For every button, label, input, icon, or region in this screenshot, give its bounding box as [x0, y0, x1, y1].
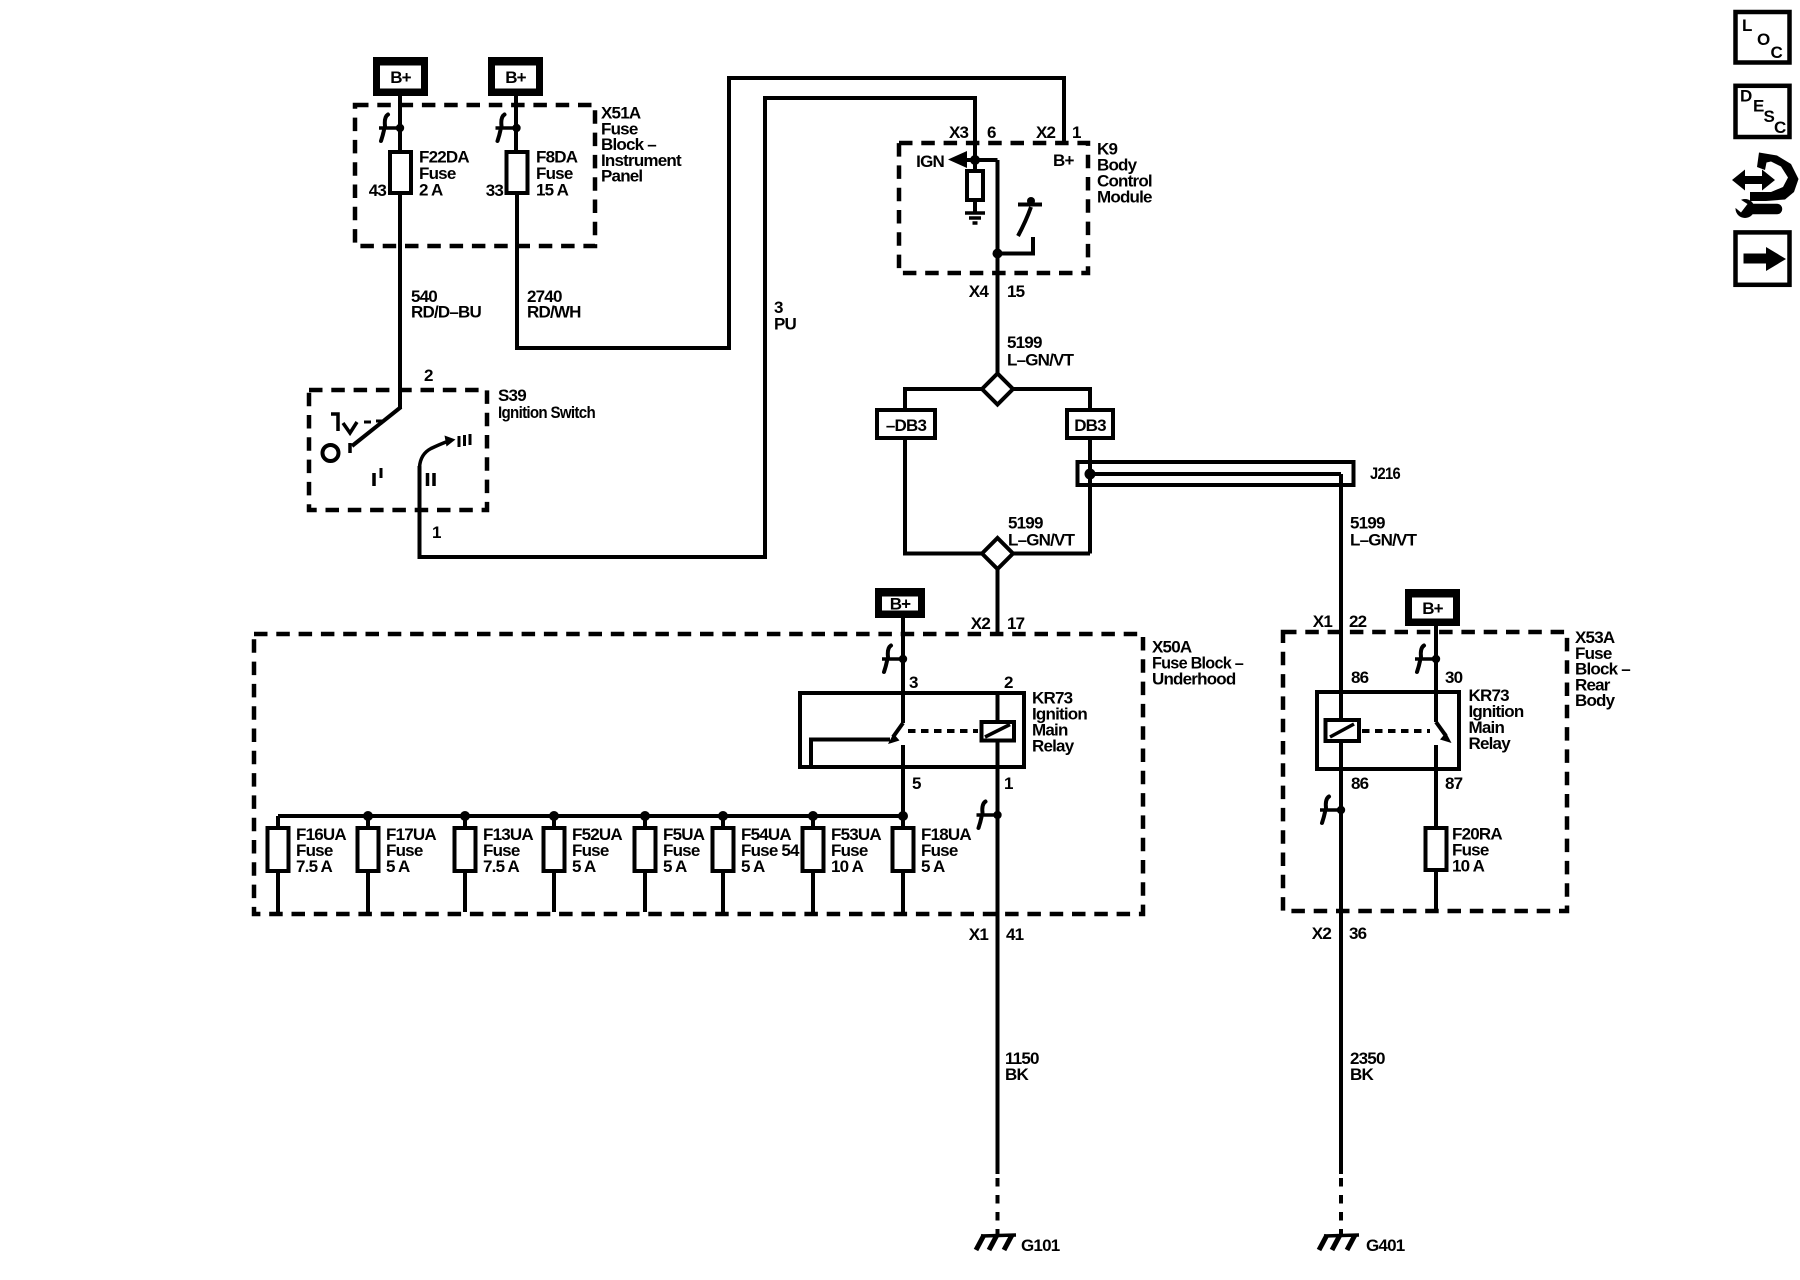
S39 moving contact II-III with arrowhead: [420, 436, 456, 468]
S39 pivot circle: [323, 445, 339, 461]
label 2350 BK: [1350, 1049, 1385, 1084]
label 5199 L-GN/VT (left branch): [1008, 514, 1076, 550]
label F53UA Fuse 10 A: [831, 825, 881, 876]
svg-text:PU: PU: [774, 315, 797, 334]
svg-text:33: 33: [486, 181, 504, 200]
label F20RA Fuse 10 A: [1452, 825, 1502, 876]
label 3 PU: [774, 298, 797, 334]
svg-text:15 A: 15 A: [536, 181, 569, 200]
svg-text:5 A: 5 A: [663, 857, 687, 876]
svg-text:L: L: [1742, 16, 1752, 35]
wire relay pin 5 to fuse bus: [901, 767, 905, 818]
fuse F13UA: [455, 816, 476, 912]
wire 3 PU (S39 pin1 to K9 X3-6): [420, 98, 976, 557]
fuse F8DA: [507, 152, 528, 193]
svg-text:BK: BK: [1350, 1065, 1374, 1084]
wire splice to DB3: [1013, 389, 1090, 410]
svg-text:Underhood: Underhood: [1152, 670, 1236, 689]
wire -DB3 to lower splice: [905, 438, 982, 554]
svg-text:X4: X4: [969, 282, 990, 301]
wire splice to -DB3: [905, 389, 982, 410]
label F5UA Fuse 5 A: [663, 825, 705, 876]
svg-text:IGN: IGN: [916, 152, 944, 171]
junction dot at X4 branch: [993, 249, 1003, 259]
svg-text:2: 2: [1004, 673, 1013, 692]
svg-text:G101: G101: [1021, 1236, 1060, 1255]
svg-text:B+: B+: [1053, 151, 1074, 170]
splice diamond (upper): [982, 374, 1013, 405]
svg-text:L–GN/VT: L–GN/VT: [1007, 350, 1075, 369]
svg-text:5: 5: [912, 774, 921, 793]
ground symbol in K9: [965, 213, 985, 223]
junction dot on fuse bus at F53UA: [808, 811, 818, 821]
wire B+ to fuse F22DA: [398, 96, 402, 152]
ignition switch S39 dashed box: [309, 390, 487, 510]
icon next-page button: [1736, 232, 1790, 284]
junction dot at X3-6: [970, 155, 980, 165]
fuse bus wire: [278, 814, 903, 818]
svg-text:41: 41: [1006, 925, 1024, 944]
svg-text:J216: J216: [1370, 464, 1400, 483]
wire inside J216: [1090, 472, 1341, 476]
KR73 output stub (pin87): [1434, 745, 1438, 769]
svg-text:43: 43: [369, 181, 387, 200]
KR73 switch feed stub (pin30): [1434, 692, 1438, 722]
label X53A Fuse Block - Rear Body: [1575, 628, 1630, 710]
svg-text:BK: BK: [1005, 1065, 1029, 1084]
wire DB3 down through J216: [1088, 438, 1092, 554]
wire X1-22 into X53A to relay pin 86: [1339, 632, 1343, 692]
label F54UA Fuse 54 5 A: [741, 825, 800, 876]
label F8DA Fuse 15 A: [536, 148, 578, 200]
svg-text:S: S: [1764, 107, 1775, 126]
fuse block X53A dashed box: [1283, 632, 1567, 911]
svg-text:B+: B+: [505, 68, 526, 87]
wire F20RA to X53A edge: [1434, 870, 1438, 911]
svg-text:17: 17: [1007, 614, 1025, 633]
KR73 coil (X53A, on pin86 line): [1326, 692, 1360, 769]
wire 1150 BK: [996, 914, 1000, 1174]
K9 internal switch lever: [1018, 207, 1031, 236]
svg-text:1: 1: [1004, 774, 1013, 793]
fuse F18UA: [893, 816, 914, 912]
svg-text:Module: Module: [1097, 188, 1152, 207]
svg-text:B+: B+: [890, 595, 911, 614]
BCM K9 dashed box: [899, 143, 1088, 273]
fuse block X50A dashed box: [254, 634, 1143, 914]
svg-text:Relay: Relay: [1469, 734, 1512, 753]
svg-text:10 A: 10 A: [831, 857, 864, 876]
svg-text:X1: X1: [1313, 612, 1333, 631]
junction dot fuse bus / relay pin 5: [898, 811, 908, 821]
power feed B+ (to F8DA): [488, 57, 543, 96]
svg-text:1: 1: [432, 523, 441, 542]
S39 position label II: [428, 473, 435, 486]
KR73 fixed contact L-wire: [811, 740, 890, 767]
svg-text:2: 2: [424, 366, 433, 385]
connector symbol on pin 1 wire: [977, 802, 1002, 829]
svg-text:O: O: [1757, 30, 1770, 49]
S39 position label I: [374, 468, 381, 486]
svg-text:30: 30: [1445, 668, 1463, 687]
wire B+ into X53A to relay pin 30: [1434, 626, 1438, 692]
label F18UA Fuse 5 A: [921, 825, 971, 876]
svg-text:Body: Body: [1575, 691, 1616, 710]
relay KR73 box (X53A): [1317, 692, 1459, 769]
svg-text:C: C: [1771, 43, 1783, 62]
junction dot on fuse bus at F52UA: [549, 811, 559, 821]
svg-text:87: 87: [1445, 774, 1463, 793]
icon LOC button: [1736, 12, 1790, 63]
fuse F17UA: [358, 816, 379, 912]
svg-text:X2: X2: [1036, 123, 1056, 142]
wire relay pin 87 to fuse F20RA: [1434, 769, 1438, 828]
svg-text:Relay: Relay: [1032, 737, 1075, 756]
wire IGN to X4 branch: [965, 158, 998, 162]
svg-text:RD/D–BU: RD/D–BU: [411, 303, 481, 322]
label F16UA Fuse 7.5 A: [296, 825, 346, 876]
svg-text:X2: X2: [971, 614, 991, 633]
connector symbol below X53A B+: [1415, 646, 1440, 673]
label 1150 BK: [1005, 1049, 1039, 1084]
label F17UA Fuse 5 A: [386, 825, 436, 876]
label 5199 L-GN/VT (right branch): [1350, 514, 1418, 550]
resistor in K9 (pull-up): [967, 160, 983, 213]
wire K9 X4-15 output: [996, 160, 1000, 374]
IGN arrow: [948, 151, 967, 168]
S39 lever from pin 2: [350, 407, 401, 453]
KR73 switch feed stub (pin3): [901, 693, 905, 723]
fuse F5UA: [635, 816, 656, 912]
connector symbol below X50A B+: [882, 646, 907, 673]
wire J216 to X53A X1-22: [1339, 474, 1343, 632]
svg-text:X2: X2: [1312, 924, 1332, 943]
wire to lower splice (right): [1013, 552, 1090, 556]
svg-text:RD/WH: RD/WH: [527, 303, 581, 322]
fuse F52UA: [544, 816, 565, 912]
node DB3: [1067, 410, 1113, 438]
svg-text:7.5 A: 7.5 A: [296, 857, 333, 876]
node -DB3: [877, 410, 935, 438]
label F22DA Fuse 2 A: [419, 148, 469, 200]
svg-text:E: E: [1753, 97, 1764, 116]
svg-text:86: 86: [1351, 774, 1369, 793]
svg-text:L–GN/VT: L–GN/VT: [1350, 531, 1418, 550]
svg-text:X1: X1: [969, 925, 989, 944]
wire relay pin 1 to X1-41: [996, 767, 1000, 914]
KR73 output stub (pin5): [901, 745, 905, 767]
svg-text:DB3: DB3: [1074, 416, 1106, 435]
label X51A Fuse Block - Instrument Panel: [601, 104, 682, 186]
label X50A Fuse Block - Underhood: [1152, 638, 1243, 689]
icon DESC button: [1736, 86, 1790, 137]
wire B+ to fuse F8DA: [514, 96, 518, 152]
K9 internal switch contact bar: [1018, 197, 1042, 205]
wire 540 RD/D-BU: [398, 193, 402, 409]
KR73 coil actuation dashed link (X53A): [1362, 729, 1430, 733]
power feed B+ (X50A): [875, 588, 925, 618]
junction dot in J216: [1085, 469, 1096, 480]
svg-text:–DB3: –DB3: [886, 416, 927, 435]
svg-text:2 A: 2 A: [419, 181, 443, 200]
wire lower splice to X50A X2-17: [996, 569, 1000, 634]
S39 position marks (OFF/ACC): [331, 414, 382, 433]
svg-text:5199: 5199: [1007, 333, 1042, 352]
svg-text:36: 36: [1349, 924, 1367, 943]
svg-text:86: 86: [1351, 668, 1369, 687]
ground G401: [1319, 1235, 1359, 1250]
KR73 coil actuation dashed link: [908, 729, 978, 733]
junction dot on fuse bus at F13UA: [460, 811, 470, 821]
S39 position label III: [459, 434, 470, 447]
label S39 Ignition Switch: [498, 386, 595, 422]
label F52UA Fuse 5 A: [572, 825, 622, 876]
connector symbol at F8DA feed: [496, 115, 521, 142]
svg-text:5 A: 5 A: [741, 857, 765, 876]
fuse F53UA: [803, 816, 824, 912]
label F13UA Fuse 7.5 A: [483, 825, 533, 876]
KR73 coil (on pin2-pin1 line): [982, 693, 1015, 767]
svg-text:B+: B+: [390, 68, 411, 87]
svg-text:C: C: [1774, 118, 1786, 137]
junction dot on fuse bus at F54UA: [718, 811, 728, 821]
power feed B+ (X53A): [1405, 589, 1460, 626]
wire 2350 BK: [1339, 911, 1343, 1174]
svg-text:10 A: 10 A: [1452, 857, 1485, 876]
svg-text:3: 3: [909, 673, 918, 692]
label KR73 Ignition Main Relay (X53A): [1469, 686, 1524, 753]
svg-text:5 A: 5 A: [386, 857, 410, 876]
splice diamond (lower): [982, 538, 1013, 569]
label 5199 L-GN/VT: [1007, 333, 1075, 369]
svg-text:Ignition Switch: Ignition Switch: [498, 403, 595, 422]
wire 1150 BK dashed continuation: [996, 1178, 1000, 1236]
label KR73 Ignition Main Relay (X50A): [1032, 689, 1087, 756]
wire relay pin 85 to X2-36: [1339, 769, 1343, 911]
fuse F20RA: [1426, 828, 1447, 870]
junction J216 bus bar: [1078, 462, 1354, 485]
ground G101: [976, 1235, 1016, 1250]
wire B+ into X50A to relay pin 3: [901, 618, 905, 693]
label 540 RD/D-BU: [411, 287, 481, 322]
wire 2740 RD/WH (to K9 X2-1): [517, 78, 1064, 348]
connector symbol at F22DA feed: [379, 115, 404, 142]
svg-text:22: 22: [1349, 612, 1367, 631]
power feed B+ (to F22DA): [373, 57, 428, 96]
junction dot on fuse bus at F17UA: [363, 811, 373, 821]
relay KR73 box (X50A): [800, 693, 1024, 767]
K9 internal switch output wire: [998, 237, 1034, 254]
label K9 Body Control Module: [1097, 140, 1152, 207]
svg-text:15: 15: [1007, 282, 1025, 301]
svg-text:X3: X3: [949, 123, 969, 142]
svg-text:D: D: [1740, 87, 1752, 106]
svg-text:7.5 A: 7.5 A: [483, 857, 520, 876]
svg-text:B+: B+: [1422, 599, 1443, 618]
wire 2350 BK dashed continuation: [1339, 1178, 1343, 1236]
KR73 switch lever: [888, 723, 903, 744]
svg-text:G401: G401: [1366, 1236, 1405, 1255]
label 2740 RD/WH: [527, 287, 581, 322]
fuse block X51A dashed box: [355, 105, 595, 246]
icon swap/tools: [1729, 153, 1799, 219]
connector symbol on pin 85 wire: [1320, 797, 1345, 824]
svg-text:1: 1: [1072, 123, 1081, 142]
fuse F16UA: [268, 816, 289, 912]
svg-text:Panel: Panel: [601, 167, 642, 186]
svg-text:5 A: 5 A: [572, 857, 596, 876]
fuse F54UA: [713, 816, 734, 912]
svg-text:6: 6: [987, 123, 996, 142]
KR73 switch lever (X53A): [1436, 722, 1452, 743]
fuse F22DA: [390, 152, 411, 193]
junction dot on fuse bus at F5UA: [640, 811, 650, 821]
svg-text:L–GN/VT: L–GN/VT: [1008, 531, 1076, 550]
svg-text:5 A: 5 A: [921, 857, 945, 876]
